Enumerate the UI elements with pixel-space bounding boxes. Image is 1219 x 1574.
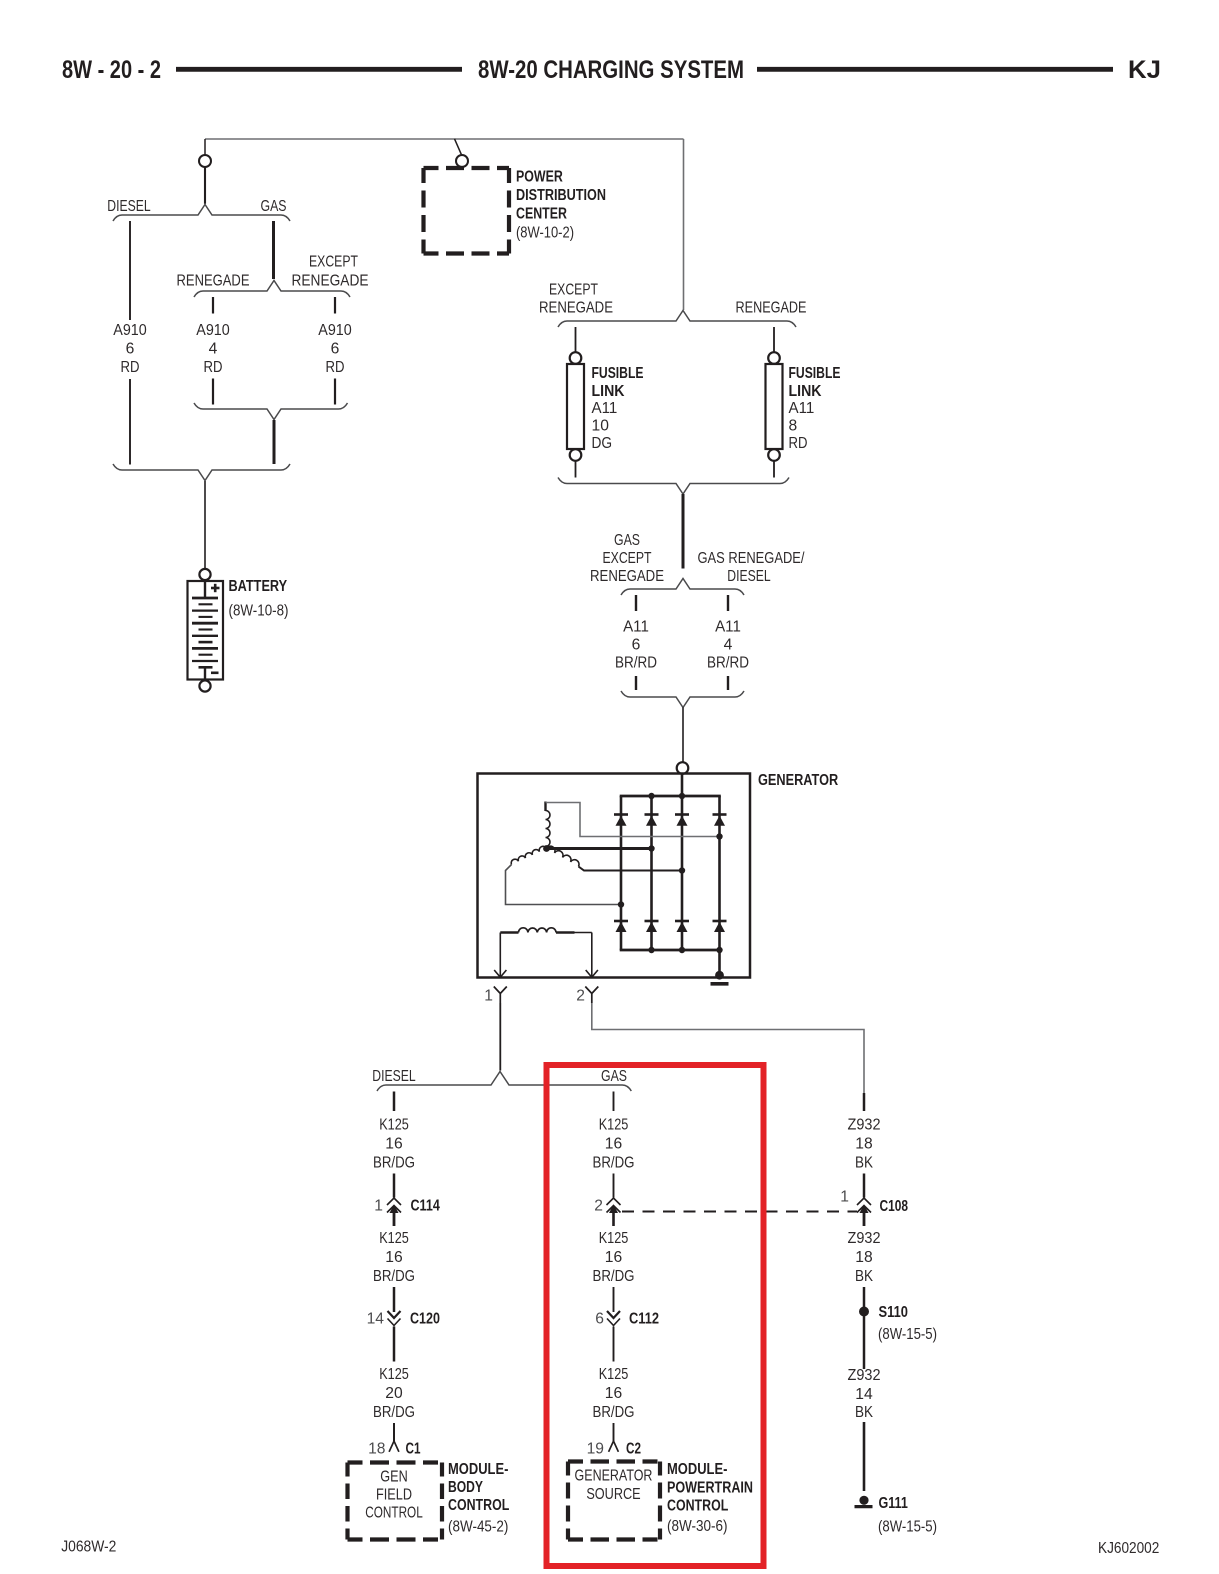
svg-text:CONTROL: CONTROL (667, 1498, 728, 1515)
svg-text:Z932: Z932 (848, 1117, 881, 1134)
terminal arrow 1 (into case) (494, 970, 506, 977)
stator winding 1 (vertical coil) (546, 802, 551, 847)
brace: fusible links merge (558, 478, 789, 495)
label: circuit A11 4 BR/RD (707, 619, 749, 672)
svg-text:S110: S110 (879, 1304, 909, 1321)
svg-text:KJ602002: KJ602002 (1098, 1540, 1159, 1557)
junction: top bus / leg2 (648, 793, 654, 799)
label: K125 16 BR/DG gas (2) (593, 1230, 635, 1285)
svg-text:CENTER: CENTER (516, 206, 567, 223)
svg-text:EXCEPT: EXCEPT (309, 254, 358, 271)
wire: winding1 top to leg4 tap (grey) (546, 803, 720, 837)
label: circuit A11 6 BR/RD (615, 619, 657, 672)
svg-text:(8W-10-2): (8W-10-2) (516, 225, 574, 242)
svg-text:18: 18 (368, 1441, 385, 1458)
svg-text:16: 16 (605, 1385, 622, 1402)
junction: phase tap leg4 (716, 833, 722, 839)
wire: K125 gas seg2 (613, 1174, 615, 1198)
label: GEN FIELD CONTROL (365, 1469, 423, 1522)
svg-text:GAS: GAS (261, 198, 287, 215)
connector C108 pin2 symbol (607, 1198, 621, 1205)
svg-text:GAS RENEGADE/: GAS RENEGADE/ (698, 550, 805, 567)
wire: terminal to diesel/gas split (204, 167, 206, 204)
wire: renegade branch lower (212, 379, 214, 405)
wire: to fusible link A11 8 (773, 327, 775, 352)
junction: phase tap leg2 (648, 845, 654, 851)
battery (cells symbol with terminals) (188, 569, 224, 692)
label: K125 16 BR/DG gas (3) (593, 1366, 635, 1421)
svg-text:2: 2 (594, 1198, 603, 1215)
brace: fusible link split (558, 311, 796, 328)
label: MODULE-BODY CONTROL (448, 1461, 509, 1536)
wire: below fusible link A11 10 (575, 461, 577, 478)
svg-text:MODULE-: MODULE- (667, 1461, 727, 1478)
brace: bottom diesel/gas split (377, 1072, 631, 1092)
wire: K125 seg6 (diesel) (393, 1423, 395, 1441)
wire: field lead 2 (591, 933, 593, 978)
wire: renegade branch upper (212, 297, 214, 314)
label: EXCEPT RENEGADE (links) (539, 282, 613, 317)
svg-text:BODY: BODY (448, 1479, 484, 1496)
svg-text:GEN: GEN (380, 1469, 407, 1486)
svg-text:EXCEPT: EXCEPT (603, 550, 652, 567)
svg-text:DIESEL: DIESEL (727, 568, 770, 585)
label: GAS RENEGADE/DIESEL (698, 550, 805, 585)
gen field control (dashed box) (348, 1463, 443, 1540)
stator winding 2 (to lower left) (511, 846, 546, 864)
wire: phase D to leg1 (grey) (506, 865, 622, 905)
junction: bottom bus / leg3 (679, 947, 685, 953)
connector: generator terminal 1 (494, 987, 507, 1004)
label: K125 20 BR/DG (373, 1366, 415, 1421)
svg-text:C114: C114 (411, 1198, 441, 1215)
svg-text:BR/DG: BR/DG (373, 1155, 415, 1172)
svg-text:DG: DG (592, 435, 613, 452)
wire: diesel branch upper (129, 221, 131, 320)
svg-text:BR/RD: BR/RD (615, 655, 657, 672)
svg-text:BK: BK (855, 1268, 873, 1285)
wire: to fusible link A11 10 (575, 327, 577, 352)
svg-text:C108: C108 (880, 1198, 909, 1215)
brace: A11 split (621, 579, 744, 596)
label: Z932 18 BK (2) (848, 1230, 881, 1285)
label: K125 16 BR/DG gas (1) (593, 1117, 635, 1172)
svg-text:A11: A11 (715, 619, 741, 636)
wire: A11 6 lower (635, 676, 637, 690)
svg-text:DIESEL: DIESEL (107, 198, 150, 215)
wire: below fusible link A11 8 (773, 461, 775, 478)
svg-text:1: 1 (374, 1198, 383, 1215)
label: MODULE-POWERTRAIN CONTROL (667, 1461, 753, 1535)
connector C112 symbol (607, 1311, 620, 1318)
svg-text:8: 8 (789, 418, 798, 435)
svg-text:GAS: GAS (601, 1068, 627, 1085)
svg-text:18: 18 (855, 1249, 872, 1266)
svg-text:K125: K125 (599, 1366, 629, 1383)
node: battery branch terminal (199, 155, 211, 167)
svg-text:LINK: LINK (789, 383, 823, 400)
svg-text:BK: BK (855, 1155, 873, 1172)
connector C120 symbol (388, 1311, 401, 1318)
wire: dashed link C108 pin2 to pin1 (622, 1211, 857, 1213)
connector C2 symbol (609, 1441, 619, 1452)
generator source (dashed box) (568, 1462, 660, 1540)
label: FUSIBLE LINK A11 10 DG (592, 365, 644, 452)
svg-text:SOURCE: SOURCE (586, 1486, 640, 1503)
wire: K125 gas seg5 (613, 1327, 615, 1362)
wire: A11 4 upper (727, 595, 729, 611)
wire: terminal1 down to diesel/gas split (499, 1003, 501, 1071)
label: Z932 18 BK (1) (848, 1117, 881, 1172)
svg-text:A11: A11 (789, 400, 815, 417)
wire: except-renegade branch upper (334, 297, 336, 314)
wire: leg4 to ground (718, 950, 721, 971)
svg-text:G111: G111 (879, 1495, 909, 1512)
svg-text:K125: K125 (379, 1117, 409, 1134)
wire: diesel branch lower (129, 379, 131, 465)
svg-text:BR/DG: BR/DG (593, 1404, 635, 1421)
label: circuit A910 6 RD (except renegade) (318, 322, 352, 376)
svg-text:A910: A910 (113, 322, 147, 339)
svg-text:8W - 20 - 2: 8W - 20 - 2 (62, 56, 161, 84)
wire: K125 gas seg4 (613, 1287, 615, 1312)
svg-text:K125: K125 (599, 1230, 629, 1247)
wire: to battery (204, 481, 206, 568)
svg-text:J068W-2: J068W-2 (61, 1539, 116, 1556)
svg-text:16: 16 (385, 1249, 402, 1266)
svg-text:BR/RD: BR/RD (707, 655, 749, 672)
node: PDC terminal (456, 155, 468, 167)
svg-text:(8W-15-5): (8W-15-5) (878, 1326, 937, 1343)
svg-text:Z932: Z932 (848, 1367, 881, 1384)
svg-text:16: 16 (385, 1136, 402, 1153)
svg-text:MODULE-: MODULE- (448, 1461, 508, 1478)
svg-text:(8W-45-2): (8W-45-2) (448, 1519, 508, 1536)
svg-text:FUSIBLE: FUSIBLE (592, 365, 644, 382)
svg-text:K125: K125 (379, 1230, 409, 1247)
wire: K125 gas seg3 (613, 1213, 615, 1226)
svg-text:A11: A11 (592, 400, 618, 417)
ground G111 (855, 1496, 873, 1507)
svg-text:19: 19 (587, 1441, 604, 1458)
svg-text:4: 4 (724, 637, 733, 654)
svg-text:K125: K125 (599, 1117, 629, 1134)
svg-text:6: 6 (632, 637, 641, 654)
label: GENERATOR SOURCE (575, 1468, 653, 1504)
svg-text:18: 18 (855, 1136, 872, 1153)
svg-text:KJ: KJ (1128, 56, 1161, 84)
label: EXCEPT RENEGADE (gas) (292, 254, 369, 290)
svg-text:C1: C1 (406, 1441, 421, 1458)
stator winding 3 (to lower right) (547, 846, 580, 866)
brace: renegade branches merge (194, 403, 348, 420)
wire: Z932 seg6 (863, 1422, 866, 1491)
wire: Z932 seg4 (863, 1287, 866, 1307)
label: K125 16 BR/DG (2) (373, 1230, 415, 1285)
wire: Z932 seg5 (863, 1316, 866, 1369)
svg-text:A910: A910 (318, 322, 352, 339)
svg-text:FUSIBLE: FUSIBLE (789, 365, 841, 382)
highlight: red callout box (547, 1065, 764, 1566)
svg-text:A11: A11 (623, 619, 649, 636)
svg-text:K125: K125 (379, 1366, 409, 1383)
splice S110 (859, 1307, 869, 1317)
brace: A11 merge (621, 691, 744, 708)
label: K125 16 BR/DG (1) (373, 1117, 415, 1172)
svg-text:CONTROL: CONTROL (448, 1497, 509, 1514)
junction: top bus / leg3 (679, 793, 685, 799)
svg-text:POWERTRAIN: POWERTRAIN (667, 1480, 753, 1497)
svg-text:RENEGADE: RENEGADE (736, 300, 807, 317)
brace: renegade/except-renegade split (194, 281, 350, 298)
svg-text:(8W-15-5): (8W-15-5) (878, 1519, 937, 1536)
svg-text:LINK: LINK (592, 383, 626, 400)
svg-text:BK: BK (855, 1404, 873, 1421)
svg-text:EXCEPT: EXCEPT (549, 282, 598, 299)
svg-text:A910: A910 (196, 322, 230, 339)
wire: merged link output (thick) (682, 494, 685, 569)
wire: rectifier bottom bus (620, 949, 721, 952)
wire: rectifier top bus (620, 795, 721, 798)
wire: phase C to leg3 (579, 867, 683, 871)
wire: stub to battery-branch terminal (204, 139, 206, 155)
svg-text:GENERATOR: GENERATOR (575, 1468, 653, 1485)
svg-text:GENERATOR: GENERATOR (758, 772, 838, 789)
junction: bottom bus / leg2 (648, 947, 654, 953)
svg-text:6: 6 (331, 341, 340, 358)
junction: phase tap leg1 (618, 901, 624, 907)
header rule left (176, 67, 462, 72)
svg-text:BR/DG: BR/DG (593, 1268, 635, 1285)
svg-text:RENEGADE: RENEGADE (590, 568, 664, 585)
node: generator B+ terminal (677, 762, 689, 774)
svg-text:RD: RD (204, 359, 223, 376)
svg-text:CONTROL: CONTROL (365, 1505, 423, 1522)
svg-text:16: 16 (605, 1136, 622, 1153)
wire: K125 seg5 (diesel) (393, 1327, 396, 1362)
svg-text:(8W-10-8): (8W-10-8) (229, 603, 289, 620)
fusible link A11 8 RD (766, 352, 783, 461)
svg-text:Z932: Z932 (848, 1230, 881, 1247)
svg-text:GAS: GAS (614, 532, 640, 549)
wire: B+ into rectifier (681, 774, 684, 796)
field winding (rotor coil) (500, 928, 592, 933)
wire: right feed drop (683, 139, 685, 310)
fusible link A11 10 DG (567, 352, 584, 461)
label: FUSIBLE LINK A11 8 RD (789, 365, 841, 452)
wire: K125 gas seg6 (613, 1423, 615, 1441)
wire: gas feed (thick) (272, 221, 275, 279)
svg-text:4: 4 (209, 341, 218, 358)
junction: phase tap leg3 (679, 867, 685, 873)
label: Z932 14 BK (848, 1367, 881, 1421)
diodes: lower row (4x pointing up) (614, 921, 727, 932)
svg-text:C120: C120 (410, 1311, 440, 1328)
svg-text:RD: RD (789, 435, 808, 452)
wire: top feed bus (205, 138, 684, 140)
svg-text:C2: C2 (626, 1441, 641, 1458)
wire: A11 4 lower (727, 676, 729, 690)
wire: K125 seg4 (diesel) (393, 1287, 396, 1312)
rectifier legs (621, 796, 720, 950)
header rule right (757, 67, 1113, 72)
connector: generator terminal 2 (585, 987, 598, 1004)
svg-text:BR/DG: BR/DG (373, 1404, 415, 1421)
junction: bottom bus / leg4 (716, 947, 722, 953)
generator box (478, 774, 751, 978)
connector C108 symbol (857, 1198, 871, 1205)
svg-text:16: 16 (605, 1249, 622, 1266)
svg-text:8W-20 CHARGING SYSTEM: 8W-20 CHARGING SYSTEM (478, 56, 744, 84)
power distribution center (dashed box) (424, 168, 510, 254)
connector C114 symbol (387, 1198, 401, 1205)
svg-text:BATTERY: BATTERY (229, 578, 288, 595)
wire: K125 seg2 (diesel) (393, 1174, 396, 1198)
svg-text:(8W-30-6): (8W-30-6) (667, 1518, 728, 1535)
svg-text:RENEGADE: RENEGADE (539, 300, 613, 317)
svg-text:C112: C112 (629, 1311, 659, 1328)
wire: to generator B+ terminal (682, 708, 684, 763)
wire: terminal2 to right column (592, 1003, 864, 1094)
brace: diesel/gas split (113, 205, 290, 222)
svg-text:6: 6 (595, 1311, 604, 1328)
wire: Z932 seg1 (thick) (863, 1093, 866, 1111)
svg-text:FIELD: FIELD (376, 1487, 412, 1504)
wire: field lead 1 (499, 933, 501, 978)
label: GAS EXCEPT RENEGADE (590, 532, 664, 585)
wire: K125 gas seg1 (613, 1092, 615, 1112)
svg-text:DISTRIBUTION: DISTRIBUTION (516, 187, 606, 204)
wire: Z932 seg2 (863, 1174, 866, 1198)
brace: diesel/gas merge (113, 464, 290, 481)
ground: generator case (711, 971, 729, 984)
svg-text:1: 1 (840, 1189, 849, 1206)
svg-text:10: 10 (592, 418, 609, 435)
svg-text:DIESEL: DIESEL (372, 1068, 415, 1085)
label: circuit A910 6 RD (diesel) (113, 322, 147, 376)
svg-text:6: 6 (126, 341, 135, 358)
svg-text:1: 1 (484, 988, 493, 1005)
wire: K125 seg1 (diesel) (393, 1092, 396, 1112)
svg-text:BR/DG: BR/DG (373, 1268, 415, 1285)
svg-text:RD: RD (121, 359, 140, 376)
svg-text:BR/DG: BR/DG (593, 1155, 635, 1172)
svg-text:20: 20 (385, 1385, 402, 1402)
junction: stator star point (543, 845, 550, 852)
wire: K125 seg3 (diesel) (393, 1213, 396, 1226)
wire: gas merged (thick) (273, 420, 276, 464)
wire: phase B to leg2 (thick) (547, 847, 652, 850)
svg-text:RENEGADE: RENEGADE (292, 273, 369, 290)
svg-text:POWER: POWER (516, 169, 563, 186)
svg-text:2: 2 (576, 988, 585, 1005)
svg-text:RENEGADE: RENEGADE (177, 273, 250, 290)
wire: slanted stub to PDC terminal (455, 139, 462, 155)
svg-text:14: 14 (367, 1311, 384, 1328)
connector C1 symbol (389, 1441, 399, 1452)
diodes: upper row (4x pointing up) (614, 815, 727, 826)
wire: A11 6 upper (635, 595, 637, 611)
svg-text:RD: RD (326, 359, 345, 376)
wire: except-renegade branch lower (334, 379, 336, 405)
svg-text:14: 14 (855, 1386, 872, 1403)
label: circuit A910 4 RD (renegade) (196, 322, 230, 376)
terminal arrow 2 (into case) (586, 970, 598, 977)
wire: Z932 seg3 (863, 1213, 866, 1226)
